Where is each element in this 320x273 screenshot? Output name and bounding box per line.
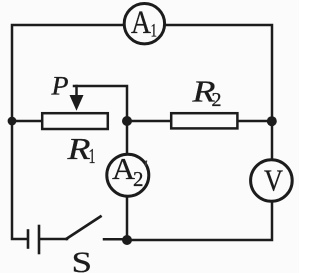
svg-text:1: 1 xyxy=(151,21,158,42)
svg-text:A: A xyxy=(131,5,151,41)
svg-text:2: 2 xyxy=(133,167,144,191)
svg-text:2: 2 xyxy=(212,89,222,111)
svg-text:1: 1 xyxy=(89,144,96,168)
svg-text:V: V xyxy=(264,163,284,198)
svg-text:R: R xyxy=(66,131,90,166)
svg-text:S: S xyxy=(72,246,93,273)
svg-text:P: P xyxy=(50,70,68,100)
